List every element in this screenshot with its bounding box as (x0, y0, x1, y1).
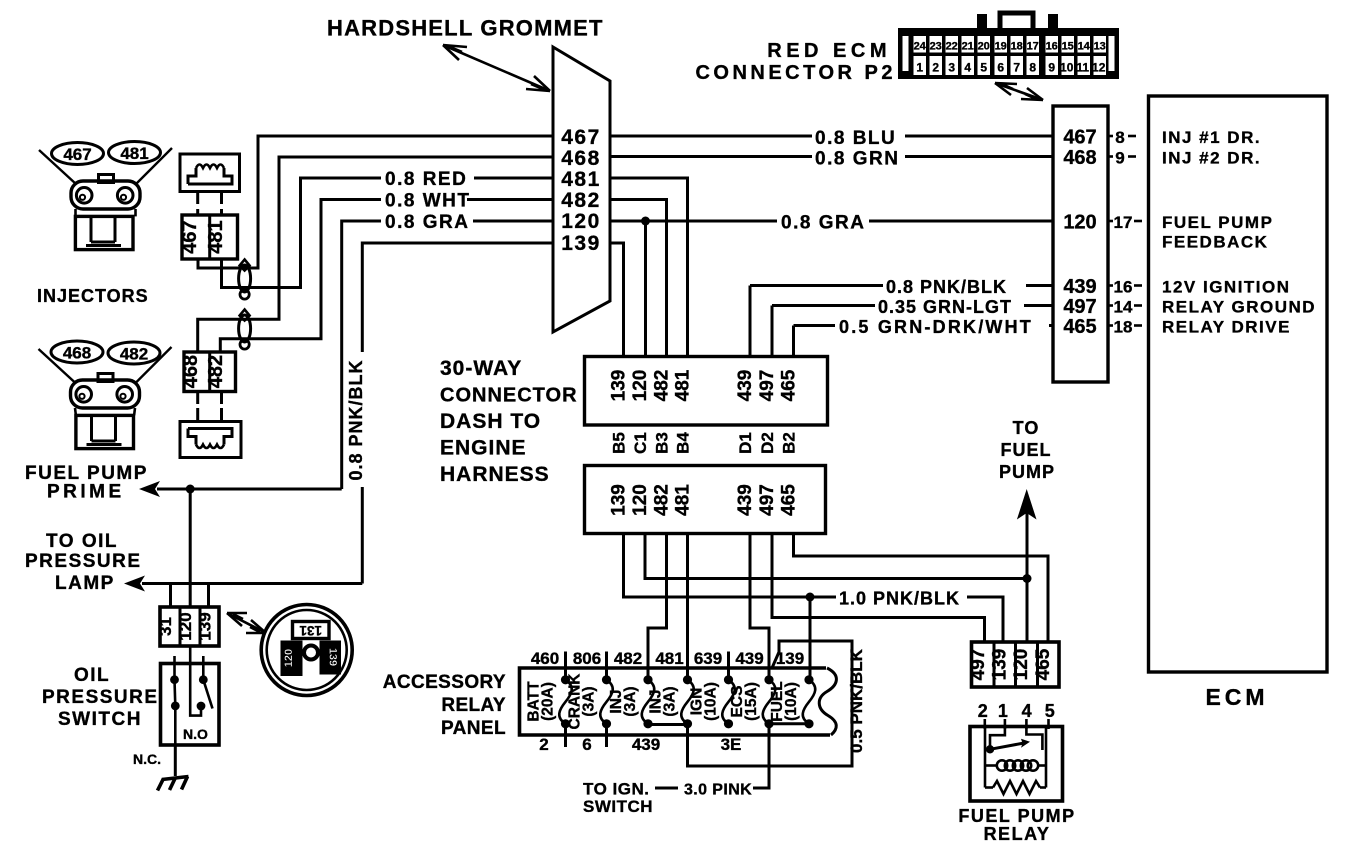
svg-text:9: 9 (1048, 61, 1055, 75)
svg-text:0.8 GRA: 0.8 GRA (385, 212, 469, 233)
wire 467 left (grommet to injector connector) (198, 136, 553, 268)
wire INJ fuse bottoms link, label 439 (648, 723, 688, 726)
svg-text:B4: B4 (674, 432, 693, 454)
svg-text:139: 139 (561, 232, 601, 255)
svg-text:HARDSHELL GROMMET: HARDSHELL GROMMET (327, 16, 604, 41)
junction dot 120/fuel pump (1023, 574, 1032, 583)
svg-text:439: 439 (735, 484, 756, 516)
wire 482 left segment b (220, 200, 381, 353)
svg-text:FUEL PUMP: FUEL PUMP (958, 806, 1075, 826)
wire 497 segment b (1024, 304, 1053, 307)
svg-text:9: 9 (1115, 149, 1124, 168)
svg-text:467: 467 (63, 145, 91, 164)
wire 465 segment a (794, 324, 836, 327)
svg-text:139: 139 (609, 370, 630, 402)
wire 139 stub to oil connector cell 139 (207, 584, 210, 608)
wire 482 right (grommet down to 30-way) (610, 200, 667, 357)
wire 465 drop to 30-way (792, 326, 795, 357)
svg-text:497: 497 (1063, 296, 1096, 318)
main body (898, 28, 1119, 79)
fuse INJ2 3A (648, 675, 694, 728)
relay internal circuit (985, 727, 1046, 795)
svg-text:TO: TO (1013, 418, 1040, 438)
svg-text:14: 14 (1078, 41, 1091, 53)
ECM connector block (1053, 106, 1108, 382)
wire switch to ground (174, 745, 177, 776)
coil frame left/right (984, 727, 987, 788)
30-way pin labels B5 C1 B3 B4 D1 D2 B2 (610, 432, 799, 454)
wire 0.5 PNK/BLK loop (INJ2 bottom around panel to ECS top) (688, 641, 853, 766)
svg-text:460: 460 (531, 649, 559, 668)
wire 465 segment b (1049, 324, 1053, 327)
svg-text:(3A): (3A) (662, 686, 679, 716)
junction dot 120/30-way (641, 217, 650, 226)
fuse INJ1 3A (608, 675, 654, 728)
injector 2 (468/482) symbol (39, 341, 172, 449)
svg-text:13: 13 (1094, 41, 1106, 53)
svg-text:5: 5 (1045, 701, 1055, 721)
coil box J2 (injector 2 coil, inverted) (180, 408, 241, 458)
arrow grommet callout (double-headed) (443, 45, 550, 91)
svg-text:0.8 GRN: 0.8 GRN (815, 149, 899, 170)
svg-text:120: 120 (630, 370, 651, 402)
wire fuel fuse feed (809, 597, 812, 679)
svg-text:(15A): (15A) (743, 682, 760, 721)
svg-text:(3A): (3A) (622, 686, 639, 716)
bullet splice B2 (239, 310, 251, 350)
svg-text:DASH TO: DASH TO (440, 410, 541, 433)
svg-text:21: 21 (962, 41, 974, 53)
svg-text:3E: 3E (721, 735, 742, 754)
svg-text:6: 6 (582, 735, 591, 754)
wire CRANK bottom stub, label 6 (605, 724, 608, 747)
svg-text:10: 10 (1060, 61, 1074, 75)
svg-text:468: 468 (63, 344, 91, 363)
hardshell grommet body (553, 47, 610, 332)
wire 120 left segment b (to fuel pump prime line) (342, 221, 381, 489)
svg-text:(10A): (10A) (703, 682, 720, 721)
svg-text:15: 15 (1062, 41, 1074, 53)
fuse CRANK 3A (567, 673, 613, 730)
svg-text:HARNESS: HARNESS (440, 463, 550, 486)
oil pressure switch connector (31|120|139) (156, 607, 219, 646)
svg-text:16: 16 (1046, 41, 1058, 53)
svg-text:12: 12 (1092, 61, 1106, 75)
svg-text:439: 439 (735, 649, 763, 668)
wire ECS bottom to 3.0 PINK (753, 724, 769, 788)
svg-text:C1: C1 (631, 432, 650, 454)
svg-text:481: 481 (655, 649, 683, 668)
svg-text:0.8 RED: 0.8 RED (385, 169, 467, 190)
svg-text:PRESSURE: PRESSURE (25, 551, 142, 572)
svg-text:INJ #1 DR.: INJ #1 DR. (1162, 128, 1261, 147)
wire 139 to relay connector (967, 597, 1003, 642)
svg-text:N.O: N.O (183, 726, 208, 742)
svg-text:465: 465 (1033, 648, 1054, 680)
wire 465 below 30-way to relay connector (794, 534, 1049, 643)
svg-text:139: 139 (609, 484, 630, 516)
ECM pin ticks and numbers (1108, 136, 1142, 326)
relay pin stubs (985, 719, 1049, 729)
wire 468 left (grommet to injector connector) (198, 157, 553, 352)
wire 482 below 30-way to INJ fuse (648, 534, 667, 680)
svg-text:5: 5 (980, 61, 987, 75)
fuse feed stubs (460, 806, 639) (564, 652, 567, 680)
arrow fuel pump prime (left) (139, 481, 160, 497)
svg-text:467: 467 (179, 220, 201, 253)
dash to ign switch (655, 787, 678, 790)
svg-text:7: 7 (1013, 61, 1020, 75)
svg-text:PRESSURE: PRESSURE (42, 687, 159, 708)
svg-text:497: 497 (757, 370, 778, 402)
relay switch pivot dot (986, 745, 994, 753)
arrow to fuel pump (up) (1017, 489, 1037, 520)
wire 439 (ECM to 30-way) segment a (750, 284, 883, 287)
svg-text:PRIME: PRIME (47, 482, 125, 503)
svg-text:RELAY: RELAY (441, 695, 506, 716)
cells bottom row (914, 56, 1107, 75)
svg-text:(20A): (20A) (540, 682, 557, 721)
svg-text:LAMP: LAMP (55, 573, 115, 594)
svg-text:120: 120 (630, 484, 651, 516)
svg-text:B2: B2 (780, 432, 799, 454)
wire 120 to fuel pump arrow and relay connector (1026, 512, 1029, 642)
svg-text:INJECTORS: INJECTORS (37, 286, 149, 306)
svg-text:639: 639 (694, 649, 722, 668)
svg-text:465: 465 (779, 369, 800, 401)
svg-text:B3: B3 (653, 432, 672, 454)
fuel pump relay connector (497|139|120|465) (968, 642, 1059, 687)
cells top row (914, 36, 1107, 53)
coil box J1 (injector 1 coil) (180, 154, 240, 204)
oil switch connector face view (circle) (261, 605, 352, 696)
svg-text:2: 2 (932, 61, 939, 75)
svg-text:482: 482 (561, 189, 601, 212)
svg-text:SWITCH: SWITCH (58, 709, 142, 730)
svg-text:1: 1 (998, 701, 1008, 721)
fuse IGN 10A (689, 675, 735, 728)
wire 468 right segment b to ECM connector (905, 155, 1053, 158)
svg-text:18: 18 (1011, 41, 1023, 53)
svg-text:467: 467 (1063, 127, 1096, 149)
pin numbers top row 24..13 (914, 41, 1106, 53)
svg-text:139: 139 (990, 649, 1011, 681)
wire 439 below 30-way to ECS fuse (750, 534, 769, 680)
svg-text:ECM: ECM (1205, 684, 1268, 710)
wire 481 left segment a (474, 177, 553, 180)
svg-text:482: 482 (652, 370, 673, 402)
fuse BATT 20A (526, 675, 572, 728)
wire 481 right (grommet down to 30-way) (610, 178, 688, 357)
svg-text:ACCESSORY: ACCESSORY (383, 672, 506, 693)
pin numbers bottom row 1..12 (916, 61, 1105, 75)
svg-text:482: 482 (120, 345, 148, 364)
svg-text:11: 11 (1076, 61, 1089, 75)
fuel pump relay box (970, 727, 1063, 802)
wire 120 below 30-way (645, 534, 1027, 579)
bracket notches (white) (903, 36, 909, 71)
wire 120 drop to 30-way (644, 221, 647, 357)
oil pressure switch box (161, 646, 220, 745)
svg-text:497: 497 (968, 649, 989, 681)
wire 481 below 30-way to INJ fuse (686, 534, 689, 680)
svg-text:482: 482 (614, 649, 642, 668)
junction dot 139/fuel fuse (806, 593, 815, 602)
svg-text:806: 806 (573, 649, 601, 668)
svg-text:439: 439 (1063, 276, 1096, 298)
svg-text:1: 1 (916, 61, 923, 75)
tabs on top (977, 14, 987, 29)
30-way connector engine-side half (lower box) (585, 466, 826, 534)
svg-text:16: 16 (1114, 278, 1133, 297)
svg-text:120: 120 (176, 612, 195, 640)
connector C1 (467|481 two-cavity) (179, 209, 238, 259)
wire 139 left lower (361, 487, 364, 584)
svg-text:D1: D1 (736, 432, 755, 454)
30-way connector dash-side half (upper box) (585, 357, 828, 426)
svg-text:CONNECTOR: CONNECTOR (440, 385, 578, 407)
svg-text:(10A): (10A) (783, 682, 800, 721)
svg-text:FEEDBACK: FEEDBACK (1162, 233, 1268, 252)
wire 439 segment b (1026, 284, 1053, 287)
svg-text:18: 18 (1114, 318, 1133, 337)
wire 139 left upper (grommet down, interrupted by label) (362, 243, 553, 352)
svg-text:2: 2 (978, 701, 988, 721)
svg-text:ENGINE: ENGINE (440, 437, 527, 460)
svg-text:120: 120 (1011, 649, 1032, 681)
svg-text:INJ #2 DR.: INJ #2 DR. (1162, 149, 1261, 168)
svg-text:17: 17 (1027, 41, 1039, 53)
svg-text:0.8 PNK/BLK: 0.8 PNK/BLK (886, 277, 1007, 297)
injector 1 (467/481) symbol (39, 142, 172, 250)
wire 139 below 30-way (624, 534, 837, 598)
svg-text:22: 22 (946, 41, 958, 53)
svg-text:19: 19 (995, 41, 1007, 53)
relay coil (985, 764, 998, 767)
arrow oil pressure lamp (left) (124, 576, 145, 592)
svg-text:439: 439 (632, 735, 660, 754)
svg-text:0.8 GRA: 0.8 GRA (781, 213, 865, 234)
svg-text:465: 465 (779, 484, 800, 516)
svg-text:468: 468 (180, 355, 202, 388)
svg-text:481: 481 (673, 369, 694, 401)
svg-text:31: 31 (156, 617, 175, 636)
wire 467 right segment a (610, 135, 812, 138)
fuse ECS 15A (729, 675, 775, 728)
svg-text:PUMP: PUMP (999, 462, 1055, 482)
svg-text:8: 8 (1115, 128, 1124, 147)
svg-text:2: 2 (539, 735, 548, 754)
svg-text:30-WAY: 30-WAY (440, 357, 522, 380)
upper box wire labels (609, 369, 800, 401)
svg-text:0.5 GRN-DRK/WHT: 0.5 GRN-DRK/WHT (839, 317, 1033, 337)
bullet splice B1 (239, 260, 251, 300)
svg-text:482: 482 (205, 355, 227, 388)
ECM box (1149, 96, 1328, 672)
wire 439 drop to 30-way (749, 286, 752, 357)
svg-text:(3A): (3A) (581, 686, 598, 716)
junction dot prime/oil connector (186, 485, 195, 494)
svg-text:SWITCH: SWITCH (583, 797, 653, 816)
svg-text:20: 20 (978, 41, 990, 53)
svg-text:497: 497 (757, 484, 778, 516)
wire 497 below 30-way to relay connector (772, 534, 985, 643)
fuse FUEL 10A (769, 675, 815, 728)
svg-text:PANEL: PANEL (441, 718, 506, 739)
wire 120 into switch (190, 646, 201, 716)
wire lamp stub to oil connector cell 31 (169, 584, 172, 608)
relay switch: pin4 fixed contact (1026, 727, 1042, 751)
svg-text:481: 481 (205, 220, 227, 253)
svg-text:RED ECM: RED ECM (767, 40, 891, 62)
relay switch: pin1 arm (990, 727, 1005, 750)
wire 497 segment a (772, 304, 875, 307)
svg-text:24: 24 (914, 41, 927, 53)
switch N.O. contact (right) (202, 656, 205, 680)
wire 481 left segment b (222, 178, 382, 288)
wire 468 right segment a (610, 155, 812, 158)
svg-text:481: 481 (561, 168, 601, 191)
svg-text:0.8 BLU: 0.8 BLU (815, 128, 896, 149)
ECM pin function labels (1162, 128, 1316, 337)
svg-text:0.35 GRN-LGT: 0.35 GRN-LGT (878, 297, 1012, 317)
svg-text:4: 4 (1022, 701, 1032, 721)
svg-text:TO IGN.: TO IGN. (583, 780, 649, 799)
wire prime drop to oil connector (189, 489, 192, 607)
svg-text:481: 481 (120, 144, 148, 163)
svg-text:17: 17 (1114, 213, 1133, 232)
svg-text:B5: B5 (610, 432, 629, 454)
wire 497 drop to 30-way (771, 306, 774, 357)
svg-text:1.0 PNK/BLK: 1.0 PNK/BLK (839, 589, 960, 609)
wire 482 left segment a (467, 198, 553, 201)
svg-text:481: 481 (673, 484, 694, 516)
svg-text:139: 139 (196, 612, 215, 640)
svg-text:8: 8 (1029, 61, 1036, 75)
svg-text:TO OIL: TO OIL (46, 531, 118, 552)
wire 467 right segment b to ECM connector (905, 135, 1053, 138)
svg-text:468: 468 (561, 147, 601, 170)
svg-text:131: 131 (299, 623, 322, 638)
lower box wire labels (609, 484, 800, 516)
arrow P2 callout (double-headed) (995, 83, 1043, 100)
svg-text:468: 468 (1063, 147, 1096, 169)
ECM connector wire numbers (1063, 127, 1096, 339)
connector C2 (468|482 two-cavity) (180, 352, 236, 404)
relay switch blade (990, 743, 1024, 749)
svg-text:0.8 PNK/BLK: 0.8 PNK/BLK (346, 359, 366, 480)
svg-text:CONNECTOR P2: CONNECTOR P2 (695, 62, 896, 84)
svg-text:120: 120 (1063, 212, 1096, 234)
relay resistor (985, 786, 993, 789)
wire oil pressure lamp line (142, 582, 362, 585)
svg-text:120: 120 (283, 649, 295, 667)
svg-text:465: 465 (1063, 316, 1096, 338)
svg-text:0.8 WHT: 0.8 WHT (385, 191, 470, 212)
svg-text:D2: D2 (758, 432, 777, 454)
svg-text:FUEL PUMP: FUEL PUMP (1162, 213, 1273, 232)
fuse top circuit labels (531, 649, 804, 668)
wire BATT bottom stub, label 2 (564, 724, 567, 747)
svg-text:3.0 PINK: 3.0 PINK (684, 782, 752, 799)
svg-text:FUEL: FUEL (1001, 440, 1052, 460)
svg-text:6: 6 (997, 61, 1004, 75)
svg-text:0.5 PNK/BLK: 0.5 PNK/BLK (847, 648, 866, 753)
svg-text:RELAY: RELAY (984, 824, 1051, 844)
svg-text:120: 120 (561, 210, 601, 233)
svg-text:N.C.: N.C. (133, 751, 161, 767)
svg-text:RELAY DRIVE: RELAY DRIVE (1162, 318, 1291, 337)
svg-text:482: 482 (652, 484, 673, 516)
arrow oil connector callout (double-headed) (227, 613, 266, 633)
svg-text:467: 467 (561, 126, 601, 149)
wire 120 right segment b to ECM connector (869, 220, 1053, 223)
svg-text:OIL: OIL (74, 665, 110, 686)
ground symbol (158, 777, 189, 791)
wire fuel pump prime line (157, 488, 342, 491)
wire ECS and FUEL bottoms link (769, 722, 809, 725)
wire 120 left segment a (473, 220, 553, 223)
svg-text:23: 23 (930, 41, 942, 53)
ECM connector P2 pin header graphic (898, 13, 1119, 79)
svg-text:4: 4 (964, 61, 971, 75)
svg-text:439: 439 (735, 370, 756, 402)
wire 120 right segment a (610, 220, 777, 223)
svg-text:12V IGNITION: 12V IGNITION (1162, 278, 1291, 297)
svg-text:139: 139 (327, 648, 339, 666)
svg-text:3: 3 (948, 61, 955, 75)
svg-text:14: 14 (1114, 298, 1133, 317)
wire 139 right (grommet down to 30-way) (610, 243, 624, 357)
switch N.C. contact (left) (173, 656, 176, 680)
svg-text:RELAY GROUND: RELAY GROUND (1162, 298, 1316, 317)
accessory relay panel box (wavy right edge) (520, 668, 831, 735)
